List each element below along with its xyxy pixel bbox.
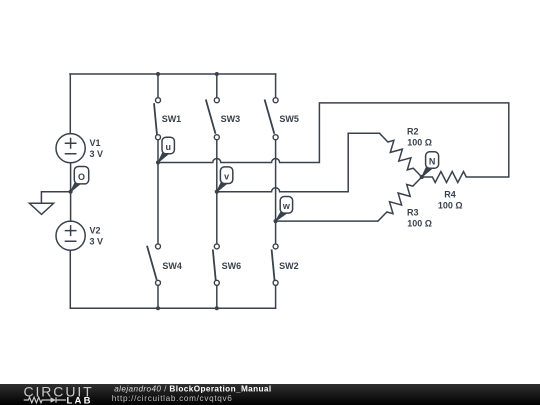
wire bottom rail [70, 307, 275, 309]
svg-text:SW4: SW4 [162, 261, 182, 271]
svg-text:3 V: 3 V [90, 237, 104, 247]
svg-text:SW1: SW1 [162, 114, 182, 124]
wire V2 to bottom rail [69, 250, 71, 308]
switch SW5 [265, 98, 279, 140]
switch SW3 [206, 98, 220, 140]
svg-text:3 V: 3 V [90, 149, 104, 159]
wire top rail [70, 73, 276, 75]
resistor R4 [422, 172, 467, 183]
junction dot top rail leg2 [215, 72, 219, 76]
svg-text:R2: R2 [407, 127, 419, 137]
svg-text:SW3: SW3 [221, 114, 241, 124]
svg-text:N: N [429, 156, 436, 166]
wire leg2 upper [216, 74, 218, 98]
wire node u to right with hops [158, 103, 509, 177]
node u [156, 137, 175, 164]
junction dot bottom rail leg1 [156, 306, 160, 310]
svg-text:v: v [224, 172, 229, 182]
svg-text:100 Ω: 100 Ω [407, 219, 432, 229]
voltage source V2 [56, 221, 85, 250]
svg-text:u: u [165, 142, 171, 152]
ground [29, 203, 53, 214]
svg-text:100 Ω: 100 Ω [407, 137, 432, 147]
node O [69, 167, 89, 194]
svg-text:V2: V2 [90, 226, 101, 236]
CircuitLab logo [24, 384, 94, 405]
wire ground stem [41, 192, 70, 204]
wire leg1 lower [157, 285, 159, 308]
footer bar [0, 384, 540, 405]
wire leg1 mid [157, 140, 159, 244]
junction dot bottom rail leg2 [215, 306, 219, 310]
wire leg2 lower [216, 285, 218, 308]
wire leg1 upper [157, 74, 159, 98]
svg-text:V1: V1 [90, 138, 101, 148]
switch SW1 [154, 98, 161, 140]
junction dot top rail leg1 [156, 72, 160, 76]
svg-text:R4: R4 [444, 190, 456, 200]
wire leg3 mid [275, 139, 277, 244]
wire node w to R3 [276, 220, 378, 222]
switch SW6 [213, 244, 220, 285]
wire leg2 mid [216, 139, 218, 244]
node w [274, 197, 293, 224]
wire left branch top [69, 74, 71, 134]
svg-text:SW2: SW2 [279, 261, 299, 271]
svg-text:LAB: LAB [67, 395, 93, 405]
wire leg3 lower [275, 285, 277, 308]
wire leg3 upper [275, 74, 277, 97]
switch SW2 [272, 244, 279, 285]
wire node v to R2 [217, 133, 380, 192]
node N [420, 152, 439, 179]
voltage source V1 [56, 134, 85, 163]
svg-text:SW5: SW5 [279, 114, 299, 124]
svg-text:w: w [282, 201, 291, 211]
switch SW4 [147, 244, 161, 285]
svg-text:SW6: SW6 [222, 261, 242, 271]
node v [215, 167, 233, 194]
svg-text:100 Ω: 100 Ω [438, 201, 463, 211]
wire V1 to node O [70, 163, 72, 192]
svg-text:http://circuitlab.com/cvqtqv6: http://circuitlab.com/cvqtqv6 [112, 394, 233, 403]
svg-text:O: O [78, 172, 85, 182]
resistor R2 [379, 133, 421, 177]
svg-text:alejandro40 / BlockOperation_M: alejandro40 / BlockOperation_Manual [114, 385, 271, 394]
svg-text:R3: R3 [407, 208, 419, 218]
resistor R3 [378, 177, 422, 221]
wire node O to V2 [70, 192, 72, 221]
